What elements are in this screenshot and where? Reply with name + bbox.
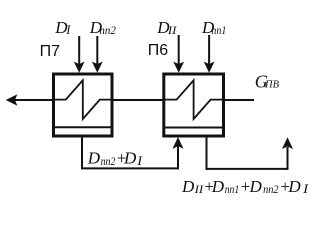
svg-text:П6: П6 (148, 42, 169, 59)
svg-text:nn1: nn1 (211, 23, 226, 37)
svg-text:ПВ: ПВ (264, 79, 280, 90)
svg-text:D: D (287, 177, 301, 196)
svg-text:nn2: nn2 (263, 182, 279, 196)
svg-text:D: D (181, 177, 195, 196)
svg-text:I: I (65, 23, 71, 37)
svg-text:nn1: nn1 (225, 182, 240, 196)
svg-text:I: I (302, 181, 309, 196)
svg-text:nn2: nn2 (101, 154, 116, 168)
svg-text:D: D (249, 177, 263, 196)
svg-text:D: D (123, 149, 137, 168)
svg-text:II: II (167, 23, 178, 37)
svg-text:nn2: nn2 (99, 23, 116, 37)
svg-text:I: I (136, 153, 143, 168)
svg-text:D: D (87, 149, 101, 168)
svg-text:D: D (211, 177, 225, 196)
svg-text:П7: П7 (40, 43, 61, 60)
